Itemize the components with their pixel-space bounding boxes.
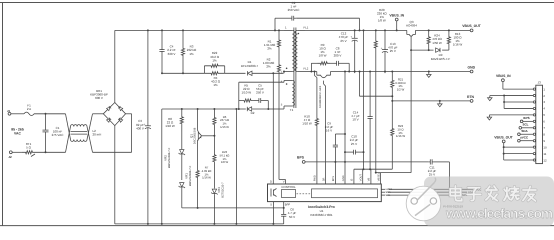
wire bias pin4 to box xyxy=(283,81,285,83)
op-amp U1 InnoSwitch3-Pro outline xyxy=(268,184,382,202)
U1 right pin uVCC xyxy=(381,188,385,190)
node R8 top xyxy=(181,108,183,110)
resistor R20 xyxy=(374,30,377,58)
node R20 top xyxy=(375,29,377,31)
resistor R23 (IS) xyxy=(391,101,393,124)
svg-text:1/16 W: 1/16 W xyxy=(396,134,405,138)
svg-text:CONTROL: CONTROL xyxy=(281,185,296,189)
wire Q3 gate column xyxy=(410,36,412,50)
ground symbol pin2 group xyxy=(490,95,504,97)
U1 dashed link xyxy=(297,193,312,195)
node C3 top xyxy=(147,29,149,31)
wire primary DC+ rail xyxy=(115,29,284,31)
J3 pin 5 xyxy=(533,114,535,116)
svg-text:SDA: SDA xyxy=(521,129,528,133)
wire FL2 line continues xyxy=(331,71,472,73)
svg-text:SCL: SCL xyxy=(523,123,529,127)
node box right on bias bus xyxy=(267,108,269,110)
node C1 bottom xyxy=(45,151,47,153)
zener VR2 xyxy=(181,132,183,150)
svg-text:1%: 1% xyxy=(212,58,217,62)
svg-text:VAC: VAC xyxy=(14,132,21,136)
transformer T1 primary winding xyxy=(284,29,292,31)
svg-text:FWD: FWD xyxy=(314,175,317,181)
wire IS jog line xyxy=(354,168,392,170)
terminal J2 (AC input neutral) xyxy=(9,151,12,154)
wire BPS to J3 drop xyxy=(434,161,450,163)
svg-text:25 V: 25 V xyxy=(390,49,396,53)
choke L2 input cross wires xyxy=(66,114,71,140)
phase dot secondary xyxy=(298,33,300,35)
resistor R24 xyxy=(427,30,430,50)
svg-text:25 V: 25 V xyxy=(340,39,346,43)
capacitor C6 xyxy=(283,208,285,215)
wire R4 to D1 xyxy=(225,72,246,74)
svg-text:VBUS_OUT: VBUS_OUT xyxy=(494,135,513,139)
watermark xyxy=(406,177,554,227)
wire RT1 to C1 node xyxy=(36,151,66,153)
resistor R1 xyxy=(277,30,280,56)
resistor R9 xyxy=(318,62,331,65)
svg-text:5 Ω: 5 Ω xyxy=(26,145,32,149)
wire bias bus right leg xyxy=(235,109,237,224)
wire secondary VBUS rail xyxy=(305,29,407,31)
resistor R2 xyxy=(277,57,280,81)
svg-text:VR1: VR1 xyxy=(185,173,189,179)
svg-text:uVCC: uVCC xyxy=(520,136,529,140)
svg-text:1/2 W: 1/2 W xyxy=(397,88,405,92)
J3 pin 1 xyxy=(533,88,535,90)
node C12 top xyxy=(354,29,356,31)
svg-text:2%: 2% xyxy=(267,47,272,51)
wire D1 to drain node xyxy=(252,72,284,74)
svg-text:DSC2501S08: DSC2501S08 xyxy=(194,127,197,144)
resistor R8 xyxy=(180,109,183,132)
wire SDA net xyxy=(388,191,467,193)
choke L2 core xyxy=(71,131,88,133)
svg-text:VOUT: VOUT xyxy=(360,174,363,182)
node R7 bottom on BPP line xyxy=(197,207,199,209)
capacitor C8 xyxy=(330,62,337,64)
transformer T1 secondary winding xyxy=(295,30,297,71)
svg-text:SXKB83KW-F-GE3: SXKB83KW-F-GE3 xyxy=(319,85,322,108)
choke L2 top winding xyxy=(71,125,88,127)
svg-text:1/16 W: 1/16 W xyxy=(220,125,229,129)
svg-text:12: 12 xyxy=(543,158,547,162)
J3 pin 9 xyxy=(533,140,535,142)
wire FWD column xyxy=(314,72,316,76)
border frame xyxy=(0,2,554,4)
wire bridge DC+ up to rail xyxy=(114,30,116,102)
U1 right pin SDA xyxy=(381,191,385,193)
svg-text:VR2: VR2 xyxy=(164,155,168,161)
svg-text:1/8 W: 1/8 W xyxy=(319,54,327,58)
wire to RT1 xyxy=(12,151,22,153)
J3 pin 6 xyxy=(533,120,535,122)
wire BPP pin xyxy=(283,202,285,208)
J3 pin 4 xyxy=(533,107,535,109)
capacitor C4 xyxy=(161,30,163,49)
node C2 riser on rail xyxy=(274,29,276,31)
node R20 bottom jog xyxy=(375,172,377,174)
svg-text:25 V: 25 V xyxy=(351,142,357,146)
node box left on bias bus xyxy=(238,108,240,110)
svg-text:1/10 W: 1/10 W xyxy=(242,91,252,95)
resistor R23 (bias divider) xyxy=(213,151,216,167)
svg-text:1/10 W: 1/10 W xyxy=(302,122,312,126)
wire VOUT column xyxy=(363,30,365,169)
phase dot bias xyxy=(286,83,288,85)
svg-text:2%: 2% xyxy=(266,65,271,69)
wire C2 to secondary rail xyxy=(296,17,359,19)
node kelvin col xyxy=(359,71,361,73)
capacitor C2 xyxy=(290,17,292,19)
zener VR1 xyxy=(180,183,184,187)
node C3 bottom on bus xyxy=(147,223,149,225)
wire S pin to bus xyxy=(272,202,274,224)
capacitor C1 xyxy=(45,114,47,130)
svg-text:RTN: RTN xyxy=(467,95,475,99)
resistor R21 (shunt) xyxy=(391,72,394,97)
svg-text:1/16 W: 1/16 W xyxy=(202,176,211,180)
wire FL2 / GND line xyxy=(305,71,317,73)
wire uVCC net xyxy=(389,188,474,190)
transistor Q2 (SR FET) xyxy=(316,72,318,76)
wire AC line top xyxy=(11,113,24,115)
svg-text:BPS: BPS xyxy=(297,156,305,160)
svg-text:SR: SR xyxy=(322,177,325,181)
wire Q1 emitter xyxy=(197,140,199,166)
snubber left riser xyxy=(310,63,312,71)
wire D pin column xyxy=(272,73,274,184)
svg-text:1%: 1% xyxy=(213,83,218,87)
wire BPP line xyxy=(198,207,284,209)
J3 pin 10 xyxy=(533,146,535,148)
thermistor RT1 xyxy=(22,151,36,154)
svg-text:50 V: 50 V xyxy=(289,215,295,219)
diode D2 xyxy=(239,108,246,110)
diode D1 xyxy=(248,71,252,75)
svg-text:600 V: 600 V xyxy=(95,96,103,100)
wire pins 2-4 tie xyxy=(504,95,533,97)
node GND col xyxy=(344,71,346,73)
wire BPS line xyxy=(305,161,429,163)
transistor Q1 xyxy=(197,132,199,140)
zener VR3 xyxy=(213,166,215,189)
node R3 bottom xyxy=(182,72,184,74)
wire pin5 xyxy=(489,114,533,116)
resistor R10 xyxy=(315,114,318,130)
svg-text:GND: GND xyxy=(342,175,345,181)
choke L2 output cross wires xyxy=(87,127,93,153)
svg-text:J3: J3 xyxy=(538,81,542,85)
capacitor C3 (bulk) xyxy=(147,30,149,125)
svg-text:25 V: 25 V xyxy=(429,173,435,177)
wire choke to bridge AC2 (bottom) xyxy=(93,151,132,153)
transistor Q3 (load switch) xyxy=(406,30,408,34)
svg-text:FL2: FL2 xyxy=(304,67,309,71)
node FWD tap xyxy=(314,71,316,73)
svg-text:1/8 W: 1/8 W xyxy=(378,19,386,23)
fuse F1 xyxy=(24,112,34,115)
U1 internal FET xyxy=(270,189,272,197)
node C4 top xyxy=(161,29,163,31)
svg-text:1%: 1% xyxy=(189,52,194,56)
diode D9 xyxy=(436,48,440,52)
svg-text:S: S xyxy=(270,203,272,206)
resistor R3 xyxy=(181,30,184,73)
choke L2 bottom winding xyxy=(71,140,88,142)
wire Q1 collector xyxy=(197,109,199,131)
svg-text:VBUS_OUT: VBUS_OUT xyxy=(462,24,481,28)
node BPP xyxy=(283,207,285,209)
svg-text:+: + xyxy=(381,46,383,50)
node C13 top xyxy=(384,29,386,31)
wire GND column xyxy=(344,72,346,185)
resistor R5 xyxy=(239,100,241,102)
resistor R22 (parallel loop top) xyxy=(203,66,205,74)
J3 pin 3 xyxy=(533,101,535,103)
svg-text:BZT52C33-7: BZT52C33-7 xyxy=(222,182,225,198)
capacitor C14 xyxy=(369,72,371,117)
svg-text:SCL: SCL xyxy=(386,194,391,197)
connector J3 xyxy=(536,85,543,163)
svg-text:1/16 W: 1/16 W xyxy=(453,43,463,47)
transformer T1 core xyxy=(293,28,295,109)
J3 pin 12 xyxy=(533,159,535,161)
resistor R4 (inline) xyxy=(204,72,224,75)
phase dot primary xyxy=(286,68,288,70)
capacitor C13 xyxy=(384,30,386,49)
wire VB pin col xyxy=(370,169,372,184)
node C13 bottom xyxy=(384,71,386,73)
svg-text:400 V: 400 V xyxy=(136,126,144,130)
node C14 top xyxy=(369,71,371,73)
wire R6 to R23 xyxy=(213,133,215,151)
svg-text:BPS: BPS xyxy=(332,176,335,181)
node VOUT col top xyxy=(363,29,365,31)
svg-text:J1: J1 xyxy=(7,109,11,113)
wire bias bus left leg xyxy=(161,109,163,224)
node R21 top xyxy=(391,71,393,73)
svg-text:+: + xyxy=(350,35,352,39)
wire VBUS_IN to pin1 xyxy=(502,82,504,90)
wire gate line xyxy=(411,49,433,51)
wire VBSEL jog to Q3 gate xyxy=(380,173,382,184)
svg-text:GND: GND xyxy=(468,66,476,70)
svg-text:J2: J2 xyxy=(8,155,12,159)
svg-text:1/8 W: 1/8 W xyxy=(221,160,229,164)
bridge rectifier BR1 xyxy=(103,103,125,126)
wire rail after Q3 xyxy=(416,29,471,31)
U1 right pin SCL xyxy=(381,194,385,196)
node R13 top xyxy=(448,29,450,31)
wire BPS pin col xyxy=(334,162,336,184)
node R24 top xyxy=(428,29,430,31)
node R3 top xyxy=(182,29,184,31)
node VR3 bottom on bus xyxy=(213,223,215,225)
wire VR1 to BPP line xyxy=(182,207,198,209)
resistor R13 xyxy=(447,30,450,50)
svg-text:D2: D2 xyxy=(251,111,255,115)
svg-text:11: 11 xyxy=(543,152,546,156)
svg-text:VBUS_IN: VBUS_IN xyxy=(389,13,404,17)
svg-text:20 mH: 20 mH xyxy=(93,132,102,136)
svg-text:VBUS_IN: VBUS_IN xyxy=(496,74,511,78)
wire bridge DC- down to return bus xyxy=(114,126,116,224)
node Q1 collector on bias bus xyxy=(197,108,199,110)
node R1 top on rail xyxy=(278,29,280,31)
wire RTN line xyxy=(392,100,470,102)
svg-text:BAV21WS-7-F: BAV21WS-7-F xyxy=(431,57,451,61)
svg-text:V: V xyxy=(283,181,285,184)
resistor R7 xyxy=(196,166,199,182)
capacitor C5 xyxy=(255,100,259,102)
J3 pin 7 xyxy=(533,127,535,129)
J3 pin 11 xyxy=(533,153,535,155)
svg-text:630 V: 630 V xyxy=(168,52,176,56)
wire C9 top link to GND col xyxy=(335,133,345,135)
snubber left node xyxy=(310,71,312,73)
svg-text:InnoSwitch3-Pro: InnoSwitch3-Pro xyxy=(308,205,335,209)
svg-text:10 V: 10 V xyxy=(352,118,358,122)
wire clamp bus xyxy=(161,72,163,74)
wire SR gate column xyxy=(323,81,325,84)
wire C2 riser xyxy=(274,18,276,30)
terminal J1 (AC input line) xyxy=(8,112,11,115)
svg-text:BPP: BPP xyxy=(285,203,291,206)
node right leg on bus xyxy=(235,223,237,225)
ground symbol on GND line xyxy=(428,71,430,73)
svg-text:200 V: 200 V xyxy=(334,54,342,58)
svg-text:IS: IS xyxy=(351,178,354,181)
node drain (D pin tap) xyxy=(272,72,274,74)
snubber right riser xyxy=(348,63,350,71)
node C12 bottom xyxy=(354,71,356,73)
svg-text:1/50 W: 1/50 W xyxy=(432,41,442,45)
svg-text:MMSZ5268B-7-F: MMSZ5268B-7-F xyxy=(189,165,192,186)
J3 pin 8 xyxy=(533,133,535,135)
wire VBUS_OUT to pins 10-12 xyxy=(503,143,505,160)
svg-text:VR3: VR3 xyxy=(217,187,221,193)
ground symbol on RTN xyxy=(439,100,441,102)
svg-text:250 V: 250 V xyxy=(256,91,264,95)
node C9 col on BPS xyxy=(334,161,336,163)
capacitor C12 xyxy=(354,30,356,38)
svg-text:250 VAC: 250 VAC xyxy=(288,8,301,12)
resistor R6 xyxy=(213,109,216,133)
svg-text:FL1: FL1 xyxy=(304,26,309,30)
wire R23 to IS jog xyxy=(391,141,393,170)
capacitor C11 (inline BPS) xyxy=(429,161,431,163)
node Q1 base junction xyxy=(213,135,215,137)
svg-text:16 V: 16 V xyxy=(326,129,332,133)
wire V pin line down to IC xyxy=(278,80,280,180)
svg-text:BPS: BPS xyxy=(523,116,529,120)
svg-text:VB: VB xyxy=(368,177,371,181)
wire R21 to RTN xyxy=(391,96,393,101)
node R6 top xyxy=(213,108,215,110)
wire fuse to C1 node xyxy=(34,113,66,115)
wire SCL net xyxy=(388,194,462,196)
wire primary return bus xyxy=(115,223,284,225)
wire bias bus xyxy=(268,108,284,110)
svg-text:DFLR1800-7: DFLR1800-7 xyxy=(241,64,259,68)
svg-text:MMSZ5248B-7-F: MMSZ5248B-7-F xyxy=(168,147,171,168)
wire kelvin link xyxy=(359,72,361,97)
J3 pin 2 xyxy=(533,94,535,96)
wire choke to bridge AC1 xyxy=(93,113,104,115)
svg-text:www.elecfans.com: www.elecfans.com xyxy=(445,206,553,221)
svg-text:AO4094: AO4094 xyxy=(406,24,417,28)
svg-text:2 A: 2 A xyxy=(27,107,31,111)
node C1 top xyxy=(45,113,47,115)
wire pin2 to drain node xyxy=(283,71,286,73)
capacitor C9 xyxy=(334,134,336,145)
ground symbol pin5 xyxy=(488,115,490,117)
capacitor C10 xyxy=(344,151,346,153)
svg-text:1/10 W: 1/10 W xyxy=(165,124,175,128)
svg-text:INN3366C-H301: INN3366C-H301 xyxy=(310,213,333,217)
U1 secondary block xyxy=(312,189,378,198)
svg-text:275 VAC: 275 VAC xyxy=(52,133,65,137)
svg-text:D: D xyxy=(270,181,272,184)
svg-text:T1: T1 xyxy=(290,108,294,112)
transformer T1 bias winding xyxy=(292,81,294,107)
svg-text:10: 10 xyxy=(543,145,547,149)
svg-text:VBSEL: VBSEL xyxy=(377,172,380,181)
